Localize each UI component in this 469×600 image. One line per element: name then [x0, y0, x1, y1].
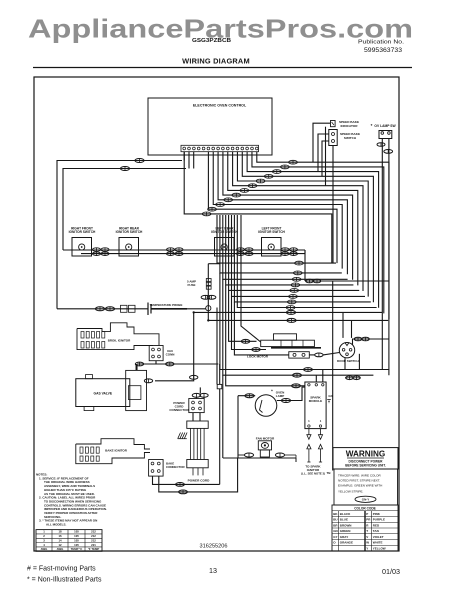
speed bake switch S1	[329, 130, 360, 146]
left front ignitor switch	[258, 227, 285, 257]
chassis ground at cord	[178, 433, 187, 439]
connector bottom loop 1	[176, 483, 185, 487]
svg-text:RED: RED	[373, 523, 380, 527]
wire lamp drop	[237, 396, 239, 458]
connector below fuse	[201, 295, 216, 299]
power cord W1	[187, 421, 210, 482]
svg-text:Y: Y	[366, 546, 368, 550]
svg-text:W: W	[366, 541, 369, 545]
svg-text:AWG: AWG	[57, 547, 64, 551]
junction dot 1	[193, 311, 195, 313]
wire EOC L1 to left loop	[57, 161, 182, 309]
footer non-illustrated parts	[27, 577, 102, 584]
connector gas valve out	[144, 379, 152, 383]
wire bottom loop 1	[153, 476, 220, 484]
spark output leads with disconnect arrows	[307, 429, 323, 462]
svg-text:POWER CORD: POWER CORD	[188, 478, 210, 482]
probe connector pair	[95, 307, 114, 311]
model number GSG3PZBCB	[192, 38, 231, 44]
bake ignitor connector J4	[149, 460, 186, 477]
svg-text:YELLOW STRIPE.: YELLOW STRIPE.	[338, 490, 364, 494]
svg-text:GY: GY	[333, 535, 337, 539]
wire gas valve top	[135, 364, 137, 370]
svg-text:IGNITOR SWITCH: IGNITOR SWITCH	[69, 230, 96, 234]
svg-text:GN: GN	[328, 394, 332, 398]
svg-text:TEMP °C: TEMP °C	[71, 547, 83, 551]
svg-text:5995363733: 5995363733	[364, 47, 402, 54]
wire fuse column feed	[208, 263, 220, 265]
wire broil conn drop	[137, 361, 156, 371]
svg-text:GREEN: GREEN	[340, 529, 351, 533]
connector bottom loop 2	[179, 490, 188, 494]
footer fast-moving parts	[27, 566, 96, 573]
connector on L2 wire	[120, 167, 129, 171]
wire nest drop d	[234, 302, 288, 355]
fan motor M1	[256, 436, 275, 457]
probe plug symbol	[121, 305, 136, 312]
svg-text:(L.L. SEE NOTE 3): (L.L. SEE NOTE 3)	[301, 472, 325, 476]
wire ignitor switch row lower	[81, 253, 305, 255]
wire lamp right	[277, 387, 305, 400]
connector pair door switch right	[354, 337, 369, 341]
wire lamp circuit lower	[223, 279, 374, 375]
svg-text:BLACK: BLACK	[340, 512, 351, 516]
connector broil wire a	[135, 362, 143, 366]
svg-text:BU: BU	[333, 518, 337, 522]
svg-text:AWG: AWG	[41, 547, 48, 551]
wire nest drop a	[216, 308, 218, 385]
wire mid nested bundle	[217, 215, 377, 308]
right front ignitor switch	[69, 227, 96, 257]
spark module U2	[305, 382, 326, 429]
wire connector to cord	[193, 413, 200, 421]
wire junction up	[219, 364, 221, 384]
wire lamp circuit upper	[220, 273, 389, 370]
fuse F1 stack	[187, 279, 211, 290]
wire gas valve drop	[155, 312, 194, 380]
svg-text:T: T	[366, 529, 368, 533]
right rear ignitor switch	[116, 227, 143, 257]
connector on L1 wire	[135, 159, 144, 163]
temperature probe P1	[57, 303, 206, 316]
publication no	[358, 40, 404, 54]
part number 316255206	[200, 544, 228, 550]
svg-text:GSG3PZBCB: GSG3PZBCB	[192, 38, 231, 44]
wire stubs into spark module top	[316, 370, 323, 383]
svg-text:CONNECTOR: CONNECTOR	[166, 465, 185, 469]
connector pair after row drop	[306, 279, 321, 283]
power cord connector J1	[169, 399, 204, 413]
connector above power cord	[192, 387, 208, 398]
wire speed bake feeds	[313, 123, 333, 263]
svg-text:NOTED FIRST, STRIPE NEXT.: NOTED FIRST, STRIPE NEXT.	[338, 479, 380, 483]
svg-text:V: V	[366, 535, 368, 539]
wire ignitor row drop	[304, 250, 306, 281]
bake ignitor HTR1	[76, 439, 150, 464]
connector on gas valve wire	[190, 375, 198, 379]
date 01/03	[382, 567, 400, 576]
wire door switch top feed 2	[351, 320, 353, 338]
connector fan right	[275, 453, 296, 458]
connector right of lock switch	[309, 353, 339, 357]
svg-text:GN-Y: GN-Y	[362, 498, 370, 502]
svg-text:01/03: 01/03	[382, 567, 400, 576]
wire spark feed	[226, 285, 305, 386]
svg-text:BLUE: BLUE	[340, 518, 348, 522]
connectors on staircase wires	[202, 160, 297, 216]
svg-text:CONNECTOR: CONNECTOR	[169, 408, 189, 412]
gas valve V1	[76, 370, 147, 410]
broil ignitor connector J3	[149, 346, 174, 361]
svg-text:P: P	[366, 512, 368, 516]
svg-text:VIOLET: VIOLET	[373, 535, 384, 539]
fan motor rail	[223, 375, 296, 462]
wire diagonal to lock motor	[241, 215, 261, 342]
svg-text:ALL MODELS.: ALL MODELS.	[46, 523, 66, 527]
speed bake indicator DS1	[331, 120, 360, 128]
wire TB horizontal	[305, 280, 389, 282]
svg-text:WARNING: WARNING	[346, 450, 386, 459]
svg-text:IGNITOR SWITCH: IGNITOR SWITCH	[116, 230, 143, 234]
svg-text:* = Non-Illustrated Parts: * = Non-Illustrated Parts	[27, 577, 102, 584]
connector fan left	[238, 453, 254, 457]
tracer wire note box	[334, 469, 398, 505]
svg-text:LAMP: LAMP	[276, 394, 285, 398]
svg-text:ORANGE: ORANGE	[340, 541, 353, 545]
site watermark AppliancePartsPros.com	[28, 14, 413, 44]
connector lamp switch left	[377, 143, 385, 147]
svg-text:WIRING DIAGRAM: WIRING DIAGRAM	[182, 57, 250, 66]
wire row lower join	[304, 250, 306, 254]
wire lamp left	[238, 395, 255, 397]
svg-text:OV LAMP SW: OV LAMP SW	[374, 124, 396, 128]
svg-text:FUSE: FUSE	[187, 283, 195, 287]
svg-text:GN: GN	[333, 529, 338, 533]
connectors at lock motor	[241, 339, 260, 351]
svg-text:YELLOW: YELLOW	[373, 546, 386, 550]
wire nest drop c	[232, 296, 267, 349]
left rear ignitor switch	[211, 227, 238, 257]
wire long horizontal 1	[194, 311, 383, 313]
svg-text:TRACER WIRE: WIRE COLOR: TRACER WIRE: WIRE COLOR	[338, 474, 381, 478]
wire broil connector row	[137, 363, 218, 365]
svg-text:COLOR CODE: COLOR CODE	[354, 506, 376, 510]
wire gauge table	[36, 530, 102, 552]
oven lamp DS2	[255, 388, 284, 416]
wire door switch top feed 1	[342, 312, 344, 338]
svg-text:GAS VALVE: GAS VALVE	[94, 392, 113, 396]
connector lamp right	[281, 399, 290, 403]
broil ignitor HTR2	[77, 323, 159, 350]
connector lamp circuit lower	[293, 373, 302, 377]
wire door switch right	[353, 339, 390, 345]
svg-text:# = Fast-moving Parts: # = Fast-moving Parts	[27, 566, 96, 573]
svg-text:Publication No.: Publication No.	[358, 40, 404, 46]
wire door switch right drop	[358, 354, 360, 370]
wire to terminal block	[332, 281, 334, 471]
svg-text:GRAY: GRAY	[340, 535, 348, 539]
title underline	[33, 67, 412, 69]
connector long wire 1	[286, 310, 295, 314]
door switch plug J2	[337, 343, 359, 363]
wire junction drop	[219, 389, 221, 485]
wire long horizontal 2	[208, 319, 388, 321]
svg-text:CONN: CONN	[166, 353, 175, 357]
connector pair below door switch	[345, 376, 361, 380]
connector broil wire b	[166, 362, 174, 366]
svg-text:FAN MOTOR: FAN MOTOR	[256, 436, 275, 440]
connector spark feed	[292, 384, 301, 388]
lock switch S3	[289, 352, 310, 358]
connectors on mid bundle	[286, 261, 303, 309]
svg-text:LOCK MOTOR: LOCK MOTOR	[247, 355, 269, 359]
oven lamp switch S2	[371, 123, 397, 139]
svg-text:MODULE: MODULE	[309, 399, 322, 403]
junction dot 2	[207, 319, 209, 321]
electronic oven control U1	[148, 98, 272, 155]
connector lamp circuit upper	[304, 368, 313, 372]
wire lamp switch right drop	[388, 139, 390, 376]
svg-text:DOOR SWITCH: DOOR SWITCH	[337, 359, 359, 363]
svg-text:PURPLE: PURPLE	[373, 518, 385, 522]
svg-text:BROIL IGNITOR: BROIL IGNITOR	[108, 339, 131, 343]
svg-text:BROWN: BROWN	[340, 523, 352, 527]
lock motor M2	[247, 334, 321, 359]
svg-text:EXAMPLE: GREEN WIRE WITH: EXAMPLE: GREEN WIRE WITH	[338, 484, 382, 488]
svg-text:316255206: 316255206	[200, 544, 228, 550]
wire door switch bottom	[344, 358, 346, 369]
wire staircase bundle EOC to right	[184, 152, 389, 320]
svg-text:°F TEMP: °F TEMP	[88, 547, 100, 551]
svg-text:BEFORE SERVICING UNIT.: BEFORE SERVICING UNIT.	[345, 463, 386, 467]
notes text	[36, 473, 107, 527]
color code table	[332, 505, 398, 551]
title WIRING DIAGRAM	[182, 57, 250, 66]
connector lamp switch right	[384, 150, 393, 154]
wire nest drop b	[229, 290, 257, 341]
ignitor row connector pairs	[93, 248, 298, 256]
svg-text:IGNITOR SWITCH: IGNITOR SWITCH	[258, 230, 285, 234]
svg-text:13: 13	[209, 566, 217, 575]
svg-text:PINK: PINK	[373, 512, 381, 516]
svg-text:SWITCH: SWITCH	[344, 136, 357, 140]
ground GN at spark module	[327, 394, 332, 403]
wire ignitor switch row	[63, 249, 305, 251]
wire lamp switch left drop	[381, 139, 383, 370]
wire stub pin1 down-left	[184, 152, 194, 169]
svg-text:BAKE IGNITOR: BAKE IGNITOR	[105, 449, 128, 453]
EOC terminal strip with pins	[181, 145, 259, 151]
TB label	[327, 471, 332, 475]
to spark label	[301, 465, 325, 476]
svg-text:*: *	[371, 123, 373, 128]
wire bottom loop 2	[159, 458, 238, 492]
wire EOC L2 to left loop	[63, 169, 186, 251]
connector lamp left	[245, 394, 254, 398]
connector long wire 2	[287, 318, 296, 322]
page number 13	[209, 566, 217, 575]
svg-text:TAN: TAN	[373, 529, 379, 533]
wire fuse column	[207, 264, 209, 321]
junction node temp probe	[206, 306, 211, 311]
svg-text:INDICATOR: INDICATOR	[341, 124, 359, 128]
diagram border	[34, 77, 399, 551]
warning box	[333, 448, 398, 469]
junction node box	[217, 384, 222, 388]
svg-text:TEMPERATURE PROBE: TEMPERATURE PROBE	[150, 303, 183, 307]
svg-text:ELECTRONIC OVEN CONTROL: ELECTRONIC OVEN CONTROL	[193, 104, 247, 108]
svg-text:WHITE: WHITE	[373, 541, 383, 545]
